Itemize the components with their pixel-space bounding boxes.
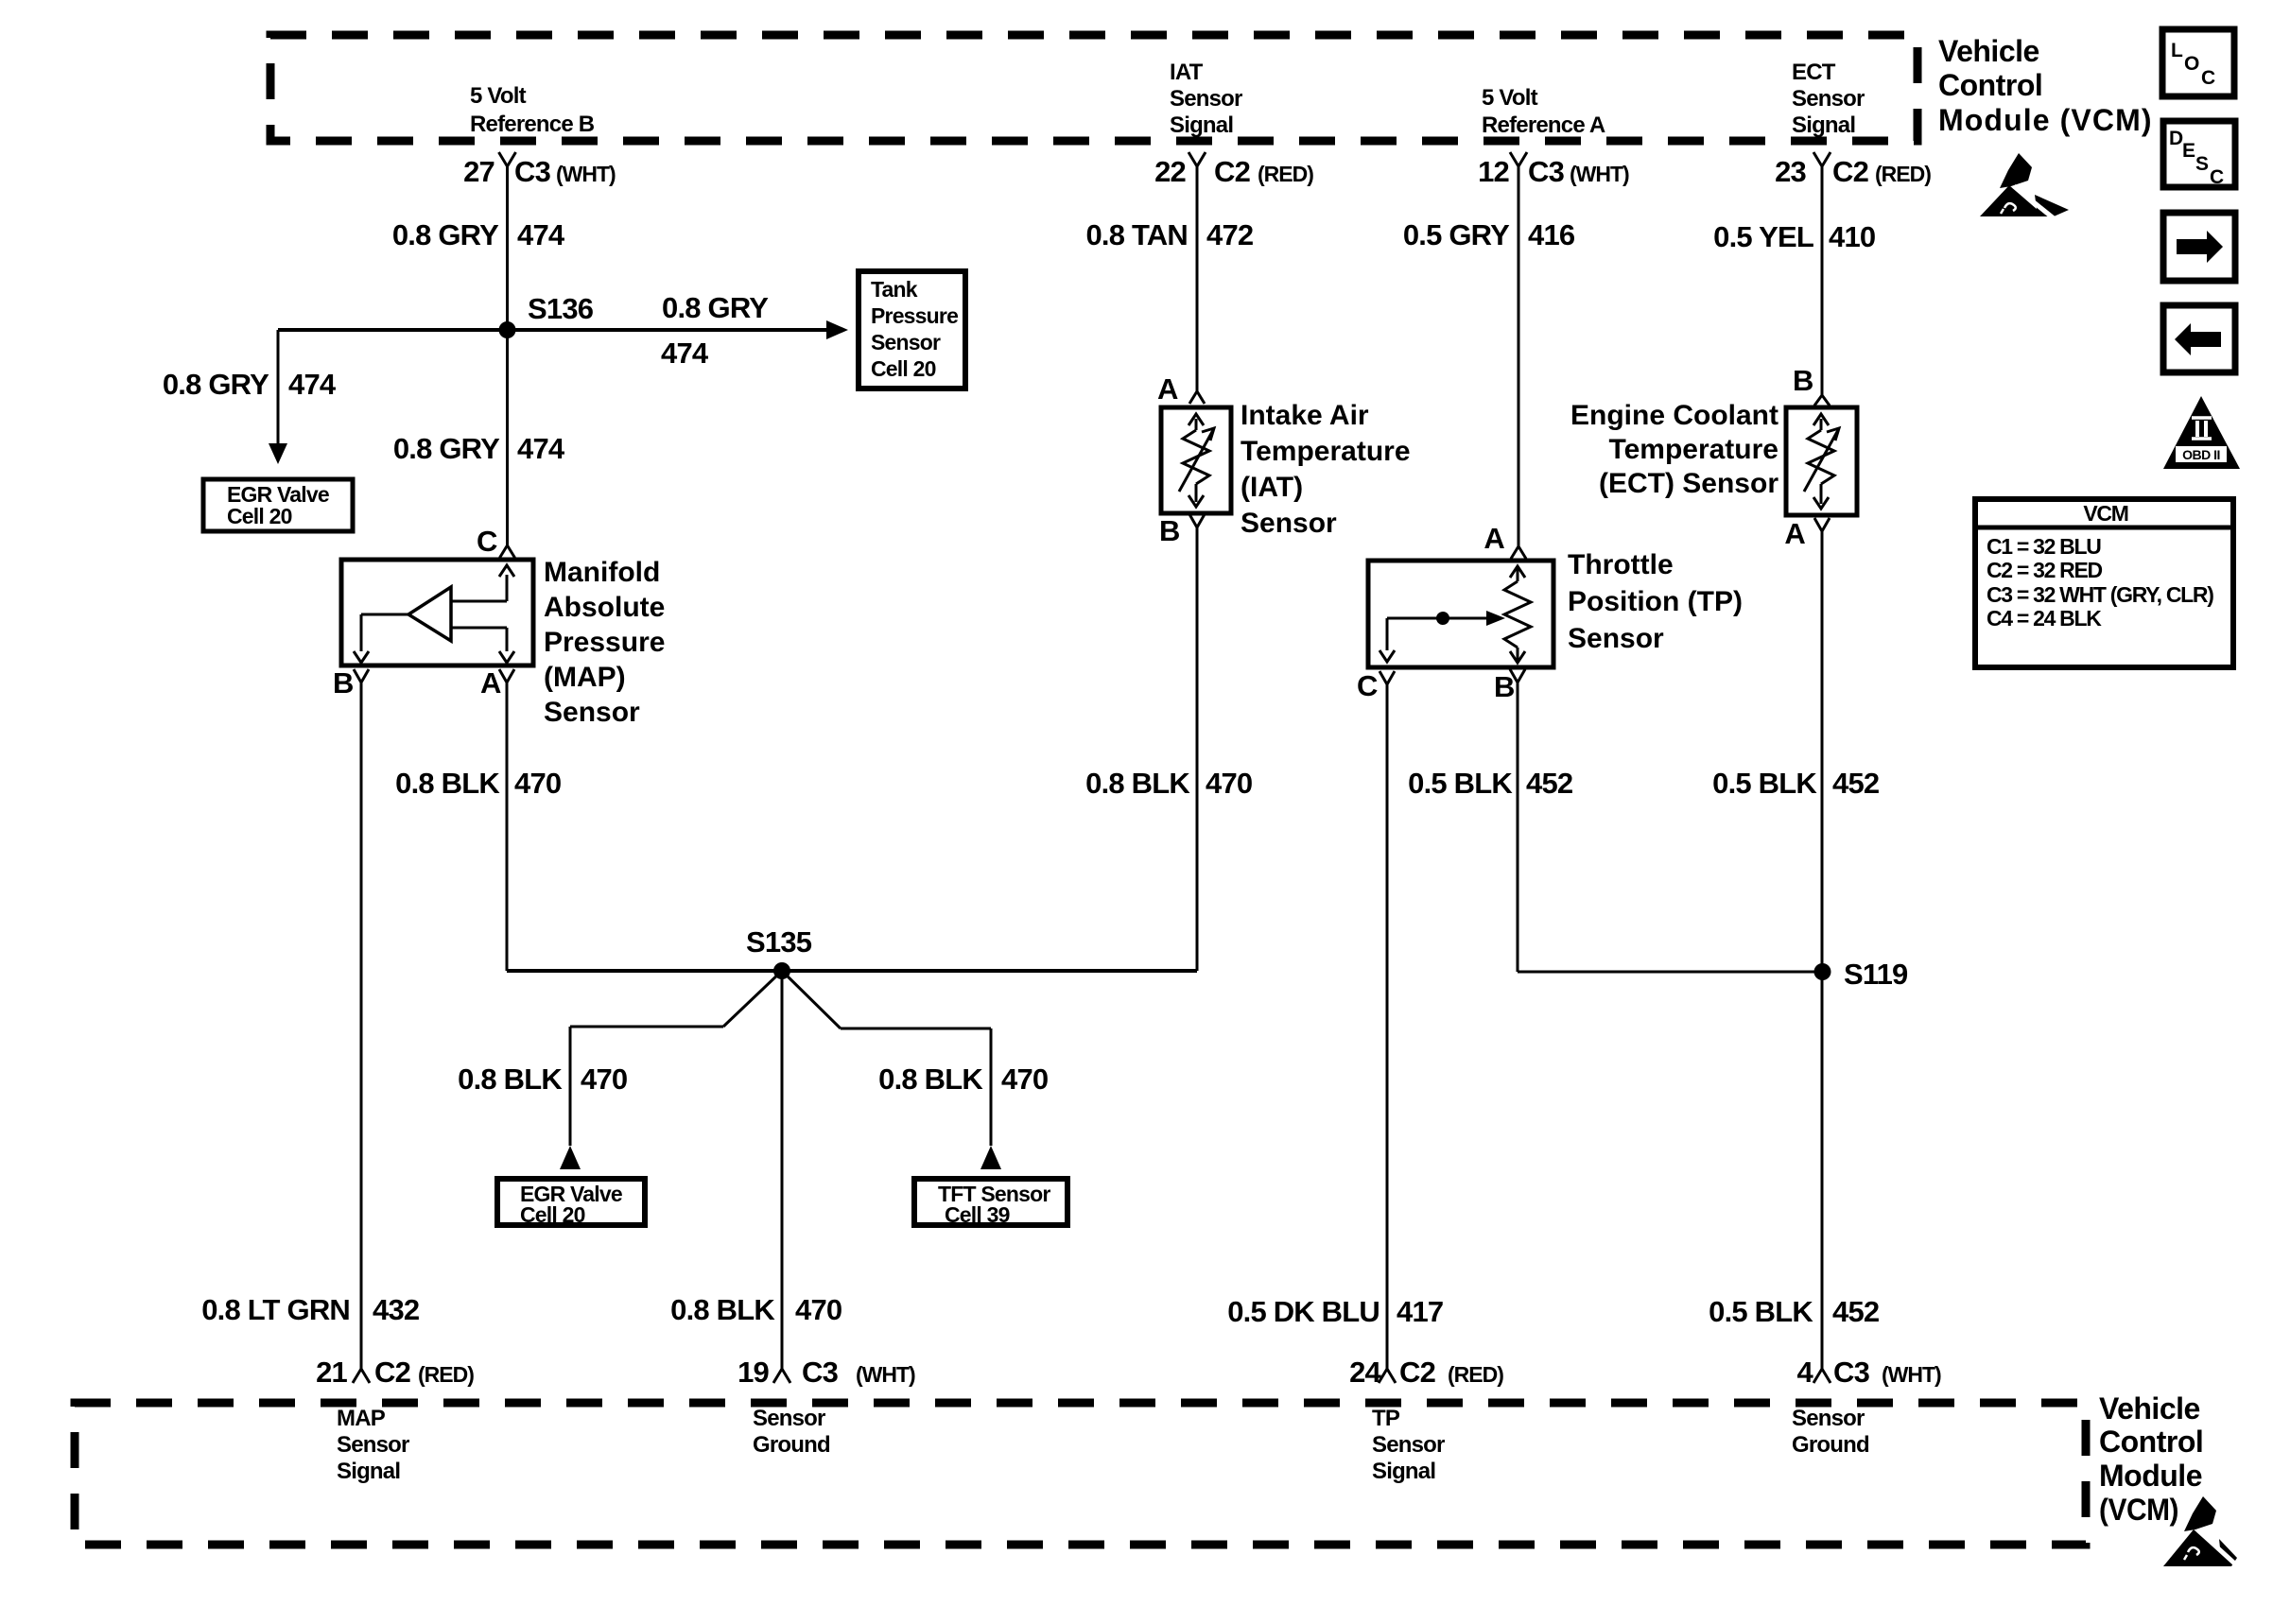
- pin letter A (TP): [1484, 522, 1504, 555]
- svg-text:C2 = 32 RED: C2 = 32 RED: [1987, 558, 2103, 582]
- pin letter A (MAP): [480, 666, 501, 700]
- svg-text:C: C: [2210, 166, 2224, 188]
- connector fork: VCM pin 12 C3: [1510, 152, 1527, 166]
- svg-text:C3: C3: [1528, 155, 1565, 188]
- splice S119 junction dot: [1814, 963, 1831, 980]
- svg-text:Sensor: Sensor: [1372, 1432, 1445, 1458]
- svg-text:Engine Coolant: Engine Coolant: [1570, 400, 1778, 431]
- MAP sensor box: [341, 560, 533, 665]
- svg-text:Cell 20: Cell 20: [871, 356, 936, 381]
- svg-text:470: 470: [581, 1063, 627, 1096]
- pin letter B (IAT): [1159, 514, 1180, 547]
- svg-text:23: 23: [1775, 155, 1806, 188]
- svg-text:452: 452: [1832, 767, 1879, 800]
- connector fork: TP sensor pin C: [1379, 671, 1395, 684]
- splice S135 junction dot: [773, 962, 790, 979]
- wire label 0.8 LT GRN 432: [201, 1293, 419, 1326]
- wire label 0.8 GRY 474 (lower, above MAP C): [393, 432, 565, 465]
- wire label 0.5 BLK 452 (ECT ground upper): [1712, 767, 1879, 800]
- svg-text:A: A: [1157, 372, 1178, 406]
- ESD sensitivity symbol (bottom right): [2163, 1496, 2240, 1568]
- svg-text:Sensor: Sensor: [1170, 86, 1242, 112]
- svg-text:19: 19: [737, 1356, 769, 1389]
- svg-text:C2: C2: [1832, 155, 1868, 188]
- svg-text:(WHT): (WHT): [1570, 162, 1629, 186]
- svg-text:0.5 BLK: 0.5 BLK: [1712, 767, 1817, 800]
- svg-text:474: 474: [288, 368, 337, 401]
- label: Engine Coolant Temperature (ECT) Sensor: [1570, 400, 1778, 499]
- svg-text:C2: C2: [1399, 1356, 1435, 1389]
- svg-text:Sensor: Sensor: [1792, 1406, 1865, 1431]
- label: 5 Volt Reference B (VCM pin function): [470, 83, 595, 137]
- svg-text:C3: C3: [802, 1356, 839, 1389]
- svg-text:Reference A: Reference A: [1482, 112, 1605, 138]
- label S119: [1844, 958, 1908, 991]
- svg-text:S119: S119: [1844, 958, 1908, 991]
- label: Intake Air Temperature (IAT) Sensor: [1241, 400, 1411, 539]
- svg-text:Temperature: Temperature: [1608, 434, 1778, 465]
- svg-text:0.8 GRY: 0.8 GRY: [163, 368, 269, 401]
- svg-text:C3: C3: [514, 155, 551, 188]
- svg-text:Module (VCM): Module (VCM): [1938, 103, 2151, 137]
- svg-text:(RED): (RED): [1875, 162, 1931, 186]
- svg-text:(RED): (RED): [418, 1362, 474, 1387]
- svg-text:Control: Control: [1938, 68, 2042, 102]
- svg-text:410: 410: [1829, 220, 1875, 253]
- svg-text:ECT: ECT: [1792, 60, 1836, 85]
- wire label 0.8 BLK 470 (TFT branch): [878, 1063, 1048, 1096]
- svg-text:VCM: VCM: [2083, 501, 2127, 526]
- svg-text:A: A: [1484, 522, 1504, 555]
- icon: left arrow box: [2163, 305, 2235, 372]
- wire label 0.5 DK BLU 417: [1227, 1295, 1443, 1328]
- svg-text:Signal: Signal: [1792, 112, 1855, 138]
- svg-text:0.8 GRY: 0.8 GRY: [392, 218, 499, 251]
- svg-text:Ground: Ground: [1792, 1432, 1869, 1458]
- svg-text:S135: S135: [746, 925, 812, 959]
- connector fork: MAP sensor pin B: [354, 669, 369, 682]
- svg-text:(RED): (RED): [1448, 1362, 1503, 1387]
- MAP internal: C input line with up arrow: [451, 565, 514, 601]
- off-page box: Tank Pressure Sensor Cell 20: [859, 271, 965, 389]
- connector fork: TP sensor pin A: [1511, 546, 1526, 559]
- pin label 23 C2 (RED): [1775, 155, 1931, 188]
- connector fork: VCM pin 24 C2: [1379, 1369, 1396, 1383]
- svg-text:MAP: MAP: [337, 1406, 386, 1431]
- svg-text:B: B: [1159, 514, 1180, 547]
- ESD sensitivity symbol (top, below VCM title): [1980, 153, 2069, 218]
- pin label 24 C2 (RED): [1349, 1356, 1503, 1389]
- label: Throttle Position (TP) Sensor: [1568, 549, 1743, 654]
- wire: TP B ground down and right to splice S119: [1518, 682, 1823, 972]
- svg-text:452: 452: [1526, 767, 1572, 800]
- label S136: [528, 292, 594, 325]
- svg-text:C: C: [2201, 67, 2215, 89]
- svg-text:Absolute: Absolute: [544, 592, 665, 623]
- svg-text:Cell 39: Cell 39: [945, 1202, 1010, 1227]
- svg-text:TP: TP: [1372, 1406, 1400, 1431]
- wire label 474 (below tank arrow): [661, 337, 709, 370]
- svg-text:B: B: [1494, 670, 1515, 703]
- wire: 0.8 GRY 474 from VCM pin 27 down to MAP sensor C: [506, 166, 509, 545]
- svg-text:27: 27: [463, 155, 495, 188]
- svg-text:Sensor: Sensor: [1241, 508, 1337, 539]
- wiper arrow with junction dot inside TP sensor: [1379, 611, 1505, 662]
- svg-text:B: B: [1793, 364, 1813, 397]
- connector fork: VCM pin 4 C3: [1813, 1369, 1831, 1383]
- svg-text:0.8 TAN: 0.8 TAN: [1085, 218, 1188, 251]
- wire: IAT B down to sensor ground bus: [1196, 527, 1199, 971]
- svg-text:Signal: Signal: [1372, 1459, 1435, 1484]
- op-amp triangle inside MAP sensor: [408, 587, 451, 641]
- pin letter C (MAP): [477, 525, 497, 558]
- pin label 4 C3 (WHT): [1797, 1356, 1941, 1389]
- wire label 0.8 GRY 474 (left branch): [163, 368, 337, 401]
- icon: OBD II triangle: [2163, 396, 2240, 469]
- svg-text:Signal: Signal: [337, 1459, 400, 1484]
- svg-text:Intake Air: Intake Air: [1241, 400, 1369, 431]
- svg-text:Position (TP): Position (TP): [1568, 586, 1743, 617]
- svg-text:Throttle: Throttle: [1568, 549, 1674, 580]
- svg-text:(MAP): (MAP): [544, 662, 626, 693]
- svg-text:0.8 BLK: 0.8 BLK: [1085, 767, 1190, 800]
- svg-text:Reference B: Reference B: [470, 112, 595, 137]
- connector fork: VCM pin 21 C2: [353, 1369, 370, 1383]
- svg-text:22: 22: [1154, 155, 1186, 188]
- svg-text:S: S: [2195, 153, 2209, 175]
- wire: S136 bus to Tank Pressure Sensor (arrow right): [278, 320, 848, 339]
- connector fork: MAP sensor pin A: [499, 669, 514, 682]
- svg-text:21: 21: [316, 1356, 347, 1389]
- wire: ECT A ground down to VCM pin 4 through splice S119: [1821, 531, 1824, 1369]
- svg-text:0.5 BLK: 0.5 BLK: [1709, 1295, 1813, 1328]
- svg-text:S136: S136: [528, 292, 594, 325]
- connector fork: ECT sensor pin A: [1814, 518, 1830, 531]
- svg-text:432: 432: [373, 1293, 419, 1326]
- svg-text:C3: C3: [1833, 1356, 1870, 1389]
- svg-text:Control: Control: [2099, 1425, 2203, 1459]
- svg-text:Sensor: Sensor: [753, 1406, 825, 1431]
- svg-text:IAT: IAT: [1170, 60, 1204, 85]
- svg-text:(VCM): (VCM): [2099, 1493, 2178, 1527]
- svg-text:474: 474: [517, 218, 565, 251]
- svg-text:(IAT): (IAT): [1241, 472, 1303, 503]
- svg-text:C: C: [477, 525, 497, 558]
- connector fork: ECT sensor pin B: [1814, 395, 1830, 406]
- off-page box: EGR Valve Cell 20 (lower): [497, 1179, 645, 1227]
- wire label 0.8 TAN 472: [1085, 218, 1253, 251]
- svg-text:Sensor: Sensor: [544, 697, 640, 728]
- label: Sensor Ground (pin 4): [1792, 1406, 1869, 1458]
- wire label 0.5 YEL 410: [1713, 220, 1875, 253]
- Vehicle Control Module (VCM) bottom dashed box: [75, 1403, 2086, 1545]
- svg-text:470: 470: [1001, 1063, 1048, 1096]
- wire label 0.8 GRY (above tank arrow): [662, 291, 769, 324]
- splice S136 junction dot: [499, 321, 516, 338]
- MAP internal: B output from op-amp apex with down arrow: [354, 614, 408, 663]
- thermistor symbol inside ECT sensor: [1804, 414, 1839, 509]
- icon: LOC box (top right): [2162, 29, 2234, 96]
- MAP internal: A output line with down arrow: [451, 628, 514, 663]
- connector fork: VCM pin 27 C3: [499, 152, 516, 166]
- label: Manifold Absolute Pressure (MAP) Sensor: [544, 557, 665, 728]
- svg-text:0.8 GRY: 0.8 GRY: [393, 432, 500, 465]
- svg-text:Manifold: Manifold: [544, 557, 660, 588]
- label: Vehicle Control Module (VCM) title top right: [1938, 34, 2151, 137]
- svg-text:470: 470: [1206, 767, 1252, 800]
- wire label 0.8 BLK 470 (IAT ground): [1085, 767, 1252, 800]
- svg-text:Module: Module: [2099, 1459, 2202, 1493]
- svg-text:0.8 BLK: 0.8 BLK: [878, 1063, 983, 1096]
- svg-text:C1 = 32 BLU: C1 = 32 BLU: [1987, 534, 2101, 559]
- pin label 27 C3 (WHT): [463, 155, 616, 188]
- connector fork: VCM pin 22 C2: [1189, 152, 1206, 166]
- svg-text:416: 416: [1528, 218, 1575, 251]
- wire: MAP B to VCM pin 21 (0.8 LT GRN 432): [360, 682, 363, 1369]
- connector fork: IAT sensor pin A: [1189, 391, 1205, 404]
- svg-text:Sensor: Sensor: [1568, 623, 1664, 654]
- svg-text:A: A: [1784, 517, 1805, 550]
- svg-text:474: 474: [517, 432, 565, 465]
- svg-text:Ground: Ground: [753, 1432, 830, 1458]
- svg-text:Sensor: Sensor: [1792, 86, 1865, 112]
- VCM connector legend table: [1975, 499, 2233, 667]
- pin letter A (ECT): [1784, 517, 1805, 550]
- pin letter A (IAT): [1157, 372, 1178, 406]
- svg-text:Sensor: Sensor: [871, 330, 941, 354]
- TP sensor box: [1368, 561, 1553, 667]
- label: ECT Sensor Signal (VCM pin function): [1792, 60, 1865, 138]
- svg-text:24: 24: [1349, 1356, 1381, 1389]
- Vehicle Control Module (VCM) top dashed box: [270, 35, 1917, 141]
- connector fork: MAP sensor pin C: [500, 545, 515, 558]
- potentiometer symbol inside TP sensor: [1504, 566, 1531, 663]
- connector fork: VCM pin 19 C3: [773, 1369, 790, 1383]
- svg-text:L: L: [2171, 40, 2183, 61]
- wire: sensor ground bus MAP A to IAT B: [507, 969, 1197, 973]
- svg-text:(WHT): (WHT): [556, 162, 616, 186]
- svg-text:B: B: [333, 666, 354, 700]
- svg-text:0.5 BLK: 0.5 BLK: [1408, 767, 1513, 800]
- wire label 0.8 GRY 474 (upper): [392, 218, 565, 251]
- wire label 0.5 BLK 452 (TP ground): [1408, 767, 1572, 800]
- wire: left branch of S136 down to EGR Valve (arrow down): [269, 330, 287, 464]
- svg-text:0.8 BLK: 0.8 BLK: [395, 767, 500, 800]
- svg-text:0.5 GRY: 0.5 GRY: [1403, 218, 1510, 251]
- svg-text:12: 12: [1478, 155, 1509, 188]
- wire: MAP A down to sensor ground bus: [506, 682, 509, 971]
- svg-text:0.8 GRY: 0.8 GRY: [662, 291, 769, 324]
- wire: 0.8 TAN 472 from VCM pin 22 to IAT sensor A: [1196, 166, 1199, 391]
- svg-text:452: 452: [1832, 1295, 1879, 1328]
- svg-text:0.8 BLK: 0.8 BLK: [458, 1063, 563, 1096]
- svg-text:Sensor: Sensor: [337, 1432, 409, 1458]
- svg-text:0.8 LT GRN: 0.8 LT GRN: [201, 1293, 350, 1326]
- wire label 0.8 BLK 470 (EGR branch): [458, 1063, 627, 1096]
- pin letter B (TP): [1494, 670, 1515, 703]
- label: TP Sensor Signal (VCM pin function): [1372, 1406, 1445, 1484]
- pin letter C (TP): [1357, 669, 1378, 702]
- svg-text:A: A: [480, 666, 501, 700]
- svg-text:C3 = 32 WHT (GRY, CLR): C3 = 32 WHT (GRY, CLR): [1987, 582, 2213, 607]
- IAT sensor box: [1161, 407, 1231, 513]
- connector fork: IAT sensor pin B: [1189, 514, 1205, 527]
- icon: DESC box: [2163, 121, 2235, 188]
- wire label 0.5 BLK 452 (lower, to pin 4): [1709, 1295, 1879, 1328]
- svg-text:Temperature: Temperature: [1241, 436, 1411, 467]
- svg-text:Cell 20: Cell 20: [227, 504, 292, 528]
- svg-text:(WHT): (WHT): [1882, 1362, 1941, 1387]
- svg-text:472: 472: [1206, 218, 1253, 251]
- wire: S135 left branch to EGR Valve: [560, 971, 782, 1169]
- svg-text:Cell 20: Cell 20: [520, 1202, 585, 1227]
- label S135: [746, 925, 812, 959]
- label: IAT Sensor Signal (VCM pin function): [1170, 60, 1242, 138]
- label: MAP Sensor Signal (VCM pin function): [337, 1406, 409, 1484]
- off-page box: EGR Valve Cell 20 (upper left): [203, 479, 353, 531]
- svg-text:(RED): (RED): [1258, 162, 1313, 186]
- connector fork: TP sensor pin B: [1510, 669, 1525, 682]
- svg-text:Pressure: Pressure: [871, 303, 958, 328]
- label: Vehicle Control Module (VCM) title bottom right: [2099, 1391, 2203, 1527]
- pin letter B (ECT): [1793, 364, 1813, 397]
- thermistor symbol inside IAT sensor: [1179, 414, 1214, 507]
- pin label 19 C3 (WHT): [737, 1356, 915, 1389]
- svg-text:5 Volt: 5 Volt: [1482, 85, 1538, 111]
- svg-text:Signal: Signal: [1170, 112, 1233, 138]
- svg-text:O: O: [2184, 53, 2199, 75]
- wire: 0.5 GRY 416 from VCM pin 12 to TP sensor A: [1518, 166, 1520, 546]
- svg-text:D: D: [2169, 128, 2183, 149]
- svg-text:470: 470: [514, 767, 561, 800]
- svg-text:5 Volt: 5 Volt: [470, 83, 527, 109]
- icon: right arrow box: [2163, 213, 2235, 281]
- svg-text:474: 474: [661, 337, 709, 370]
- wire: S135 stem down to VCM pin 19: [781, 971, 784, 1369]
- svg-text:C: C: [1357, 669, 1378, 702]
- wire: S135 right branch to TFT Sensor: [782, 971, 1001, 1169]
- svg-text:C2: C2: [374, 1356, 410, 1389]
- svg-text:E: E: [2182, 140, 2195, 162]
- svg-text:(WHT): (WHT): [856, 1362, 915, 1387]
- svg-text:Tank: Tank: [871, 277, 918, 302]
- pin label 22 C2 (RED): [1154, 155, 1313, 188]
- svg-text:0.5 DK BLU: 0.5 DK BLU: [1227, 1295, 1379, 1328]
- wire: TP C down to VCM pin 24 (0.5 DK BLU 417): [1386, 684, 1389, 1369]
- pin letter B (MAP): [333, 666, 354, 700]
- svg-text:(ECT) Sensor: (ECT) Sensor: [1599, 468, 1778, 499]
- label: Sensor Ground (pin 19): [753, 1406, 830, 1458]
- pin label 21 C2 (RED): [316, 1356, 474, 1389]
- svg-text:470: 470: [795, 1293, 842, 1326]
- ECT sensor box: [1786, 407, 1857, 515]
- svg-text:4: 4: [1797, 1356, 1814, 1389]
- svg-text:C4 = 24 BLK: C4 = 24 BLK: [1987, 606, 2102, 631]
- off-page box: TFT Sensor Cell 39: [914, 1179, 1067, 1227]
- label: 5 Volt Reference A (VCM pin function): [1482, 85, 1605, 138]
- wire label 0.5 GRY 416: [1403, 218, 1575, 251]
- svg-text:OBD II: OBD II: [2182, 447, 2220, 462]
- svg-text:0.5 YEL: 0.5 YEL: [1713, 220, 1813, 253]
- svg-text:Vehicle: Vehicle: [1938, 34, 2039, 68]
- svg-text:0.8 BLK: 0.8 BLK: [670, 1293, 775, 1326]
- svg-text:Pressure: Pressure: [544, 627, 665, 658]
- svg-text:417: 417: [1397, 1295, 1443, 1328]
- svg-text:C2: C2: [1214, 155, 1250, 188]
- svg-text:Vehicle: Vehicle: [2099, 1391, 2200, 1425]
- connector fork: VCM pin 23 C2: [1813, 152, 1831, 166]
- wire label 0.8 BLK 470 (S135 stem): [670, 1293, 842, 1326]
- pin label 12 C3 (WHT): [1478, 155, 1629, 188]
- wire label 0.8 BLK 470 (MAP ground): [395, 767, 561, 800]
- wire: 0.5 YEL 410 from VCM pin 23 to ECT sensor B: [1821, 166, 1824, 395]
